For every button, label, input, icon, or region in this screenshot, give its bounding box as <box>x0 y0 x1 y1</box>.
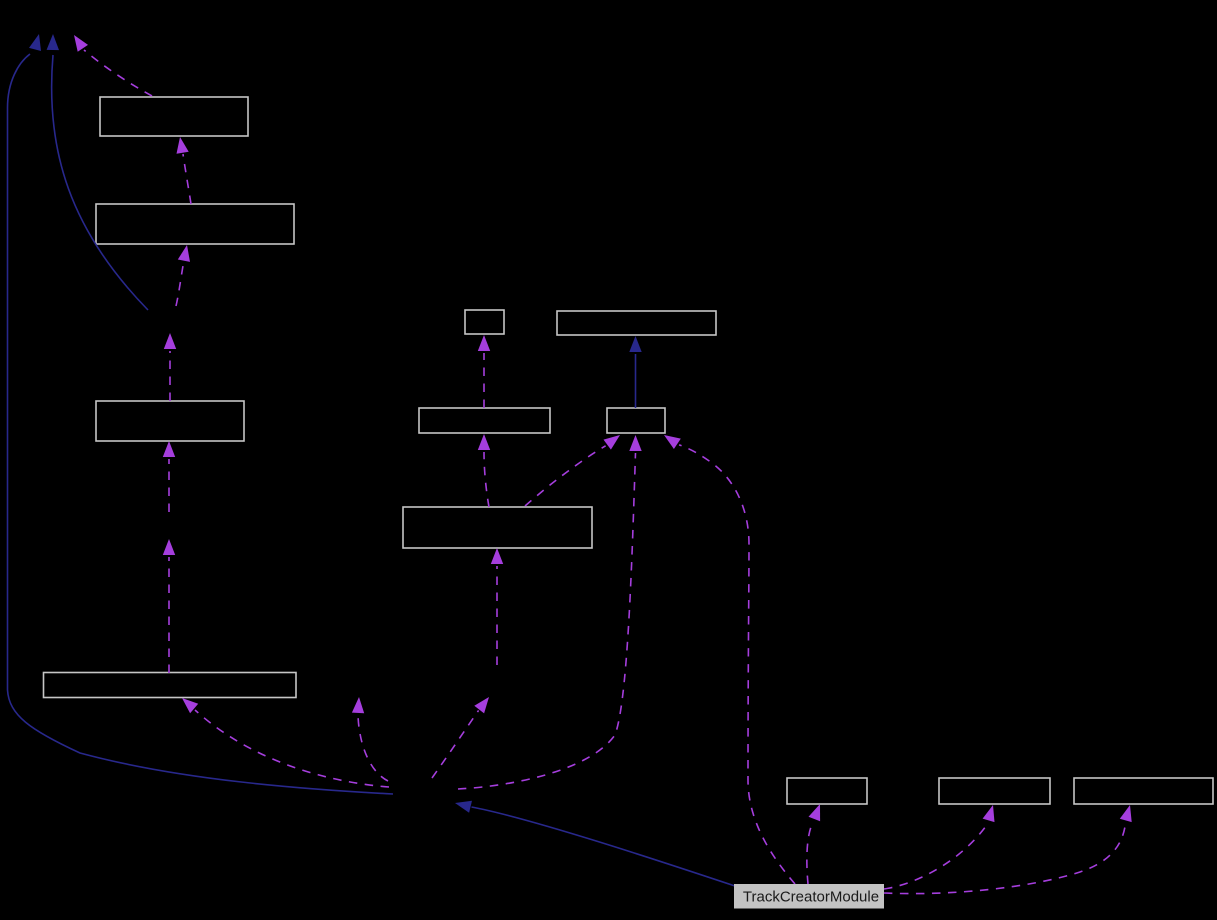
node B box (row 3 left) <box>96 204 294 244</box>
arrowhead of dashed edge hidden node H1 to node B <box>178 245 190 262</box>
dashed edge hidden node H1 to node B <box>176 262 184 306</box>
arrowhead of solid edge central node to top node (outer left curve) <box>29 34 41 51</box>
dashed edge node A to top node <box>84 50 152 96</box>
node E box (small, center top) <box>465 310 504 334</box>
dashed edge TrackCreatorModule to node J <box>807 822 813 884</box>
arrowhead of dashed edge node C to hidden node H1 <box>164 333 176 349</box>
dashed edge node I to node G <box>484 452 489 507</box>
arrowhead of dashed edge node D to hidden node H2 <box>163 539 175 555</box>
node I box (center wide) <box>403 507 592 548</box>
solid edge central node to top node (outer left curve) <box>8 54 394 794</box>
arrowhead of dashed edge central node to hidden node H3 <box>352 697 364 713</box>
arrowhead of dashed edge node B to node A <box>177 137 189 154</box>
arrowhead of solid edge hidden node H1 to top node (inner left curve) <box>47 34 59 50</box>
arrowhead of dashed edge node G to node E <box>478 335 490 351</box>
node L box (bottom right 3) <box>1074 778 1213 804</box>
arrowhead of dashed edge hidden node H2 to node C <box>163 441 175 457</box>
svg-text:TrackCreatorModule: TrackCreatorModule <box>743 888 879 905</box>
solid edge hidden node H1 to top node (inner left curve) <box>52 55 148 310</box>
solid edge node H to node F <box>635 354 637 408</box>
node J box (bottom right 1) <box>787 778 867 804</box>
node F box (wide, center top) <box>557 311 716 335</box>
arrowhead of dashed edge node I to node G <box>478 434 490 450</box>
node H box (center small) <box>607 408 665 433</box>
dashed edge central node to node H (long vertical) <box>458 453 636 789</box>
dashed edge TrackCreatorModule to node L <box>884 823 1126 894</box>
dashed edge TrackCreatorModule to node K <box>884 824 988 889</box>
arrowhead of dashed edge central node to hidden node H4 <box>474 697 489 713</box>
TrackCreatorModule node <box>735 885 884 909</box>
arrowhead of dashed edge node I to node H <box>604 435 621 450</box>
dashed edge central node to hidden node H3 <box>358 715 388 781</box>
dashed edge node B to node A <box>183 154 191 204</box>
dashed edge node D to hidden node H2 <box>168 557 170 673</box>
arrowhead of solid edge TrackCreatorModule to central node <box>455 801 472 813</box>
solid edge TrackCreatorModule to central node <box>472 807 736 886</box>
dashed edge hidden node H4 to node I <box>496 566 498 665</box>
dashed edge node G to node E <box>483 353 485 408</box>
dashed edge node C to hidden node H1 <box>169 351 171 401</box>
arrowhead of dashed edge central node to node D <box>182 698 198 713</box>
node A box (top-left, row 2) <box>100 97 248 136</box>
dashed edge central node to hidden node H4 <box>432 710 479 778</box>
arrowhead of solid edge node H to node F <box>629 336 641 352</box>
node C box (row 5 left) <box>96 401 244 441</box>
arrowhead of dashed edge node A to top node <box>74 35 88 52</box>
arrowhead of dashed edge TrackCreatorModule to node J <box>809 804 821 821</box>
arrowhead of dashed edge central node to node H (long vertical) <box>629 435 641 451</box>
arrowhead of dashed edge hidden node H4 to node I <box>491 548 503 564</box>
arrowhead of dashed edge TrackCreatorModule to node K <box>983 805 995 822</box>
arrowhead of dashed edge TrackCreatorModule to node L <box>1120 805 1132 822</box>
node G box (center) <box>419 408 550 433</box>
dashed edge hidden node H2 to node C <box>168 459 170 512</box>
dashed edge node I to node H <box>525 446 606 506</box>
dashed edge TrackCreatorModule to node H (right curve) <box>679 445 795 884</box>
node K box (bottom right 2) <box>939 778 1050 804</box>
arrowhead of dashed edge TrackCreatorModule to node H (right curve) <box>664 435 681 449</box>
node D box (row 7 left) <box>44 673 297 698</box>
dashed edge central node to node D <box>195 710 389 787</box>
